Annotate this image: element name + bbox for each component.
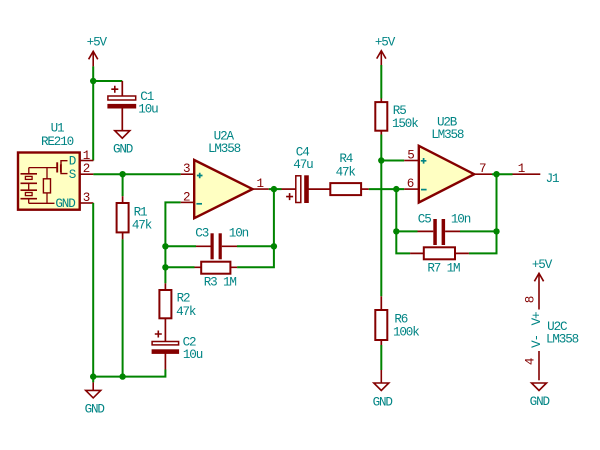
svg-text:RE210: RE210 xyxy=(41,135,74,149)
svg-text:C3: C3 xyxy=(195,227,208,241)
wire R5 bottom down through to R6 xyxy=(380,135,382,297)
capacitor C3 xyxy=(195,227,248,260)
svg-text:C5: C5 xyxy=(418,212,431,226)
node junction pin6 xyxy=(393,186,399,192)
svg-text:GND: GND xyxy=(85,403,105,417)
svg-text:47k: 47k xyxy=(336,165,356,179)
node junction ground rail R1 xyxy=(119,373,125,379)
svg-text:2: 2 xyxy=(183,190,190,204)
wire C5 left xyxy=(396,230,417,232)
svg-text:47k: 47k xyxy=(176,305,196,319)
wire R1 top xyxy=(122,174,124,196)
capacitor C5 xyxy=(418,212,471,245)
node junction C5 right xyxy=(493,228,499,234)
svg-text:4: 4 xyxy=(524,358,538,365)
svg-text:U1: U1 xyxy=(51,122,64,136)
wire U2B output xyxy=(492,173,513,175)
connector J1 pin 1 xyxy=(513,162,559,186)
wire +5V junction to C1 xyxy=(93,80,122,82)
svg-text:8: 8 xyxy=(524,296,538,303)
svg-text:6: 6 xyxy=(407,177,414,191)
svg-text:GND: GND xyxy=(530,395,550,409)
U1 internal resistor xyxy=(43,168,50,204)
U2B pin 6 xyxy=(404,177,419,191)
node junction at +5V / C1 xyxy=(90,78,96,84)
resistor R3 xyxy=(195,262,238,290)
svg-text:GND: GND xyxy=(55,197,75,211)
svg-text:150k: 150k xyxy=(392,117,418,131)
svg-text:3: 3 xyxy=(183,162,190,176)
svg-text:R2: R2 xyxy=(177,291,190,305)
svg-text:1: 1 xyxy=(518,162,525,176)
svg-text:1: 1 xyxy=(256,177,263,191)
wire R3 row xyxy=(165,266,194,268)
svg-text:J1: J1 xyxy=(546,172,559,186)
resistor R7 xyxy=(410,247,469,275)
U2C pin 8 V+ xyxy=(524,273,544,325)
node junction C3 right xyxy=(271,243,277,249)
svg-text:R3 1M: R3 1M xyxy=(204,276,237,290)
U1 internal mic element xyxy=(21,168,58,204)
U1 pin 2 (S) xyxy=(69,162,94,182)
wire C5 right xyxy=(460,230,497,232)
svg-text:2: 2 xyxy=(83,162,90,176)
wire R2 top to U2A - input xyxy=(165,202,180,283)
svg-text:7: 7 xyxy=(479,162,486,176)
wire ground rail xyxy=(93,370,165,377)
power +5V (left) xyxy=(87,35,108,66)
U1 internal JFET Q xyxy=(57,161,67,174)
node junction pin2/R1 xyxy=(119,171,125,177)
capacitor C4 xyxy=(282,146,314,203)
U2A pin 2 xyxy=(181,190,195,204)
U2B pin 7 xyxy=(474,162,492,176)
svg-text:1: 1 xyxy=(83,149,90,163)
svg-text:V+: V+ xyxy=(530,312,544,325)
node junction R3 left xyxy=(162,264,168,270)
resistor R4 xyxy=(308,152,369,195)
svg-text:100k: 100k xyxy=(393,326,419,340)
U1 pin 1 (D) xyxy=(69,149,94,169)
svg-text:+5V: +5V xyxy=(375,35,396,49)
svg-text:LM358: LM358 xyxy=(431,128,464,142)
wire pin5 xyxy=(381,160,404,162)
svg-text:R1: R1 xyxy=(134,205,147,219)
wire U1 pin3 down to ground rail xyxy=(92,203,94,377)
op-amp U2C power pins xyxy=(546,320,579,347)
power +5V (middle) xyxy=(375,35,396,65)
svg-text:R6: R6 xyxy=(394,313,407,327)
wire R6 bottom xyxy=(380,345,382,370)
U2C pin 4 V- xyxy=(524,335,544,380)
svg-text:GND: GND xyxy=(373,395,393,409)
ground (U2C) xyxy=(530,383,550,409)
ground (R6) xyxy=(373,370,393,409)
capacitor C2 xyxy=(152,318,203,369)
svg-text:D: D xyxy=(69,154,76,168)
resistor R5 xyxy=(375,99,418,135)
svg-text:10n: 10n xyxy=(451,212,471,226)
wire +5V to R5 xyxy=(380,65,382,99)
svg-text:47k: 47k xyxy=(132,218,152,232)
svg-text:47u: 47u xyxy=(293,158,313,172)
power +5V (U2C) xyxy=(532,258,553,281)
svg-text:+5V: +5V xyxy=(87,35,108,49)
svg-text:3: 3 xyxy=(83,191,90,205)
svg-text:V-: V- xyxy=(530,335,544,348)
svg-text:LM358: LM358 xyxy=(546,333,579,347)
node junction ground rail left xyxy=(90,373,96,379)
wire R4 to U2B pin6 xyxy=(369,188,404,190)
svg-text:10u: 10u xyxy=(183,348,203,362)
wire output node down to R7 xyxy=(469,174,497,253)
wire pin6 node down to C5/R7 xyxy=(396,189,410,253)
node junction C5 left xyxy=(393,228,399,234)
wire +5V to U1 pin1 vertical xyxy=(92,66,94,160)
ground (main rail) xyxy=(85,377,105,417)
U2A pin 1 xyxy=(253,177,269,191)
ground (C1) xyxy=(113,131,133,157)
capacitor C1 xyxy=(108,81,158,131)
svg-text:S: S xyxy=(69,168,76,182)
node junction C3 left xyxy=(162,243,168,249)
component U1 RE210 body xyxy=(18,122,80,210)
U1 pin 3 (GND) xyxy=(55,191,93,211)
wire R1 bottom to ground rail xyxy=(122,239,124,376)
svg-text:LM358: LM358 xyxy=(208,142,241,156)
node junction output xyxy=(493,171,499,177)
U2B pin 5 xyxy=(404,149,419,163)
resistor R6 xyxy=(375,296,419,345)
svg-text:R7 1M: R7 1M xyxy=(427,261,460,275)
resistor R1 xyxy=(117,196,152,239)
svg-text:10n: 10n xyxy=(229,227,249,241)
wire C3 row xyxy=(165,245,196,247)
svg-text:10u: 10u xyxy=(138,103,158,117)
svg-text:+5V: +5V xyxy=(532,258,553,272)
resistor R2 xyxy=(159,283,195,319)
wire U1 pin2 to U2A + input xyxy=(93,173,180,175)
svg-text:R4: R4 xyxy=(339,152,352,166)
node junction R5/pin5 xyxy=(378,157,384,163)
op-amp U2A xyxy=(194,129,252,218)
node junction U2A output xyxy=(271,186,277,192)
svg-text:GND: GND xyxy=(113,142,133,156)
svg-text:5: 5 xyxy=(407,149,414,163)
wire U2A output row xyxy=(269,188,282,190)
op-amp U2B xyxy=(419,115,474,202)
U2A pin 3 xyxy=(181,162,195,176)
